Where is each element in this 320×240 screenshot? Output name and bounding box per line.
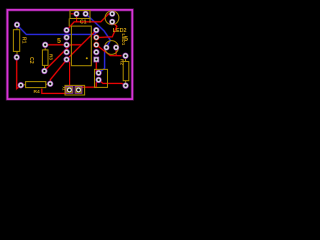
header C1 box: [70, 11, 90, 19]
wire R3.bottom diagonal: [44, 45, 70, 71]
svg-text:C1: C1: [80, 20, 87, 26]
svg-text:5: 5: [124, 36, 128, 43]
pad Q1.bottom: [95, 77, 101, 83]
resistor R2 body: [123, 59, 129, 83]
resistor R1 body: [13, 27, 19, 54]
pad R3.top: [42, 42, 48, 48]
IC square pad: [93, 57, 99, 63]
svg-text:5: 5: [57, 38, 61, 45]
wire R4.right to IC pin5L: [50, 60, 66, 84]
pad LED1.left: [103, 44, 109, 50]
LED2 circle: [105, 11, 119, 25]
resistor R4 body: [23, 82, 49, 88]
pad R2.bottom: [122, 82, 128, 88]
pad LED1.right: [113, 44, 119, 50]
IC pin 3L: [63, 42, 69, 48]
wire IC pin3R to R2.top: [96, 45, 121, 56]
header left silk line: [68, 19, 70, 27]
transistor Q1 box: [95, 69, 108, 87]
pad R3.bottom: [41, 68, 47, 74]
IC pin 5L: [63, 56, 69, 62]
pad LED2.top: [109, 11, 115, 17]
pad R1.bottom: [14, 54, 20, 60]
wire R1.bottom to R4.left: [17, 60, 21, 89]
wire blue header to LED1: [86, 14, 111, 47]
svg-text:C2: C2: [28, 57, 34, 64]
svg-text:R4: R4: [34, 89, 40, 95]
svg-text:R1: R1: [21, 37, 27, 44]
svg-text:R2: R2: [118, 59, 124, 65]
wire header pad left stub: [71, 13, 77, 15]
wire IC pin5L to pin1R diagonal: [67, 30, 97, 59]
wire blue R1.top to IC pin1R: [17, 25, 96, 35]
wire stub to connector left: [42, 89, 70, 94]
pad R2.top: [122, 53, 128, 59]
wire IC pin1L to LED2.top: [67, 14, 113, 30]
pad Q1.top: [95, 70, 101, 76]
resistor R3 body: [42, 47, 48, 68]
pad header 1: [73, 11, 79, 17]
pin1 dot: [86, 57, 88, 59]
op-amp U1 body: [71, 26, 91, 66]
svg-text:R3: R3: [48, 54, 54, 60]
pad LED2.bottom: [109, 19, 115, 25]
connector pad 1: [66, 86, 73, 93]
connector pad 2: [75, 86, 82, 93]
wire header pad stub: [76, 14, 78, 22]
header notch: [89, 19, 91, 23]
wire R3.top to IC pin3L: [45, 44, 81, 46]
IC pin 2R: [93, 34, 99, 40]
pad R4.left: [18, 82, 24, 88]
wire blue LED1 to Q1: [99, 48, 107, 73]
pad R4.right: [47, 81, 53, 87]
wire Q1.bottom to connector right: [79, 80, 99, 90]
wire IC square pad to Q1.top: [96, 60, 98, 73]
board outline: [7, 10, 132, 99]
IC pin 4L: [63, 49, 69, 55]
wire LED2.bottom to IC pin2R: [96, 22, 117, 38]
IC pin 2L: [63, 34, 69, 40]
IC pin 1R: [93, 27, 99, 33]
connector X1 box: [65, 85, 85, 95]
svg-text:X1: X1: [61, 86, 65, 90]
pad R1.top: [14, 22, 20, 28]
wire IC pin5L to connector left: [67, 60, 70, 87]
IC pin 3R: [93, 42, 99, 48]
pad header 2: [83, 11, 89, 17]
wire Q1.bottom to R2.bottom: [99, 80, 126, 86]
IC pin 1L: [63, 27, 69, 33]
wire LED1.right down: [115, 48, 117, 56]
IC pin 4R: [93, 49, 99, 55]
LED1 circle: [105, 41, 119, 55]
